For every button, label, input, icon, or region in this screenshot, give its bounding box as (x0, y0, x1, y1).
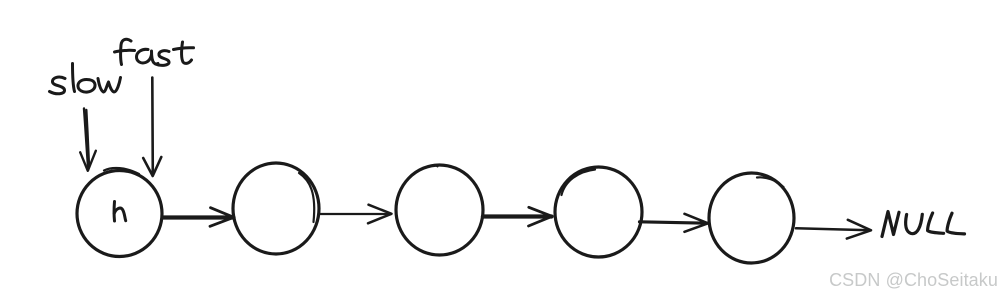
arrow slow (vertical) (80, 109, 96, 171)
label NULL (882, 212, 965, 237)
label slow (50, 64, 121, 94)
node 3 sketch tick top (432, 165, 438, 167)
node 5 sketch overlap top (757, 177, 784, 187)
node 1 circle (77, 171, 162, 257)
arrow fast (vertical) (143, 78, 161, 177)
arrow 4->5 (640, 214, 709, 232)
arrow 3->4 (483, 207, 552, 226)
node 2 circle (233, 163, 319, 254)
arrow 5->NULL (796, 220, 871, 239)
node 1 sketch overlap top (104, 168, 139, 174)
node 4 sketch overlap top-left (562, 170, 596, 196)
watermark (829, 270, 998, 291)
node 2 sketch overlap right (299, 173, 314, 222)
node 5 circle (709, 173, 794, 263)
arrow 1->2 (163, 208, 234, 227)
node 4 circle (555, 167, 642, 257)
node 3 circle (396, 165, 483, 255)
label h (114, 202, 126, 222)
arrow 2->3 (320, 205, 392, 224)
label fast (115, 39, 194, 65)
